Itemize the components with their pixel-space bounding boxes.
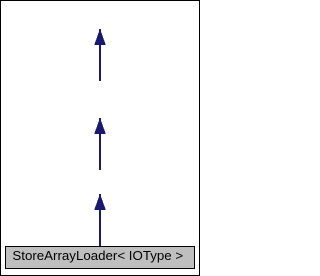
node StoreArrayLoader box [6,247,195,269]
node StoreArrayLoader label [12,248,183,264]
inheritance arrow 2 (middle) [94,118,106,170]
inheritance arrow 3 (bottom) [94,194,106,246]
inheritance arrow 1 (top) [94,29,106,81]
border frame [1,1,200,276]
